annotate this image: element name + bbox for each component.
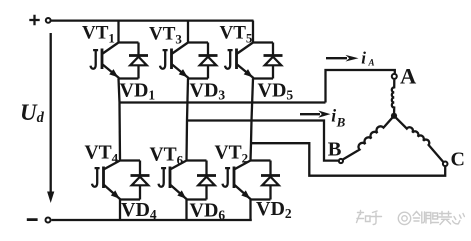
svg-text:A: A [400,64,417,89]
svg-text:B: B [328,139,342,161]
svg-text:C: C [451,149,465,171]
